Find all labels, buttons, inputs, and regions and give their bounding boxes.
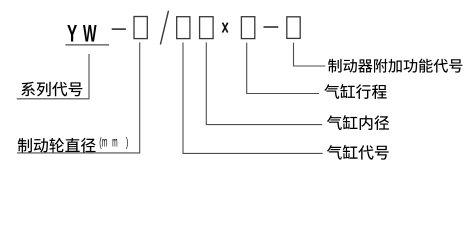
svg-text:Y: Y	[67, 21, 78, 47]
svg-text:m: m	[102, 135, 108, 150]
svg-text:): )	[126, 136, 128, 150]
svg-text:m: m	[112, 135, 118, 150]
svg-text:W: W	[83, 21, 97, 48]
